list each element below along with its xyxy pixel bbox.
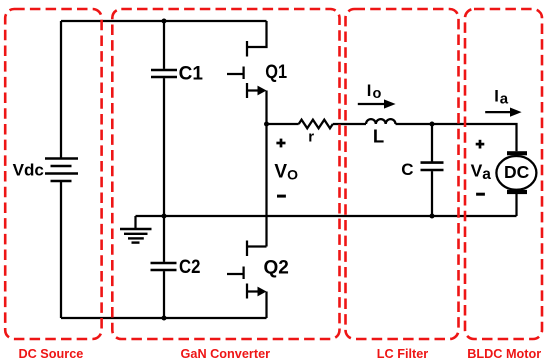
battery Vdc: [45, 159, 78, 182]
current arrow Io: [358, 99, 396, 108]
node C filter top: [430, 122, 435, 127]
wire inductor to C node: [396, 123, 433, 125]
capacitor C: [421, 163, 444, 170]
svg-text:DC Source: DC Source: [18, 347, 83, 361]
svg-text:LC Filter: LC Filter: [377, 347, 429, 361]
transistor Q1: [227, 21, 267, 124]
node bottom rail / C2: [162, 316, 167, 321]
wire resistor to inductor: [333, 123, 366, 125]
label minus Vo: [277, 195, 286, 198]
inductor L: [366, 119, 396, 124]
wire C node to motor top: [432, 124, 517, 151]
wire capacitor column middle: [163, 78, 165, 262]
resistor r: [299, 120, 333, 129]
wire DC source left column bottom: [60, 181, 62, 318]
svg-text:Vdc: Vdc: [13, 161, 44, 180]
region box LC Filter: [346, 9, 459, 339]
wire DC source left column top: [60, 21, 62, 159]
wire middle ground rail: [136, 215, 517, 217]
svg-text:L: L: [373, 126, 384, 147]
region box DC Source: [5, 9, 101, 339]
wire filter capacitor bottom lead: [431, 171, 433, 216]
svg-text:Io: Io: [367, 82, 382, 102]
region box GaN Converter: [112, 9, 339, 339]
wire capacitor column bottom: [163, 271, 165, 318]
label plus Vo: [276, 139, 285, 148]
svg-text:C1: C1: [179, 64, 204, 85]
region box BLDC Motor: [465, 9, 542, 339]
svg-text:Ia: Ia: [494, 87, 508, 107]
capacitor C1: [151, 70, 177, 77]
svg-text:BLDC Motor: BLDC Motor: [467, 347, 541, 361]
svg-text:Va: Va: [471, 160, 492, 183]
capacitor C2: [151, 263, 177, 270]
svg-text:Q1: Q1: [265, 62, 287, 83]
svg-text:VO: VO: [274, 162, 298, 183]
svg-text:C: C: [401, 160, 413, 179]
node junction top rail / C1: [162, 19, 167, 24]
label plus Va: [476, 140, 485, 149]
svg-text:GaN Converter: GaN Converter: [181, 347, 271, 361]
wire output node to resistor: [267, 123, 299, 125]
transistor Q2: [227, 241, 267, 319]
svg-text:C2: C2: [179, 257, 200, 278]
svg-text:DC: DC: [504, 162, 530, 182]
wire capacitor column top: [163, 21, 165, 69]
label minus Va: [476, 193, 485, 196]
motor DC machine: [496, 151, 536, 216]
wire output column through ground rail: [265, 124, 267, 247]
node output Vo: [264, 122, 269, 127]
wire top rail: [61, 20, 267, 22]
wire bottom rail: [61, 317, 267, 319]
svg-text:Q2: Q2: [264, 257, 289, 278]
svg-text:r: r: [308, 129, 314, 146]
current arrow Ia: [485, 108, 521, 117]
wire filter capacitor top lead: [431, 124, 433, 162]
node ground rail / C column: [162, 214, 167, 219]
ground: [120, 216, 152, 243]
node C filter bottom: [430, 214, 435, 219]
